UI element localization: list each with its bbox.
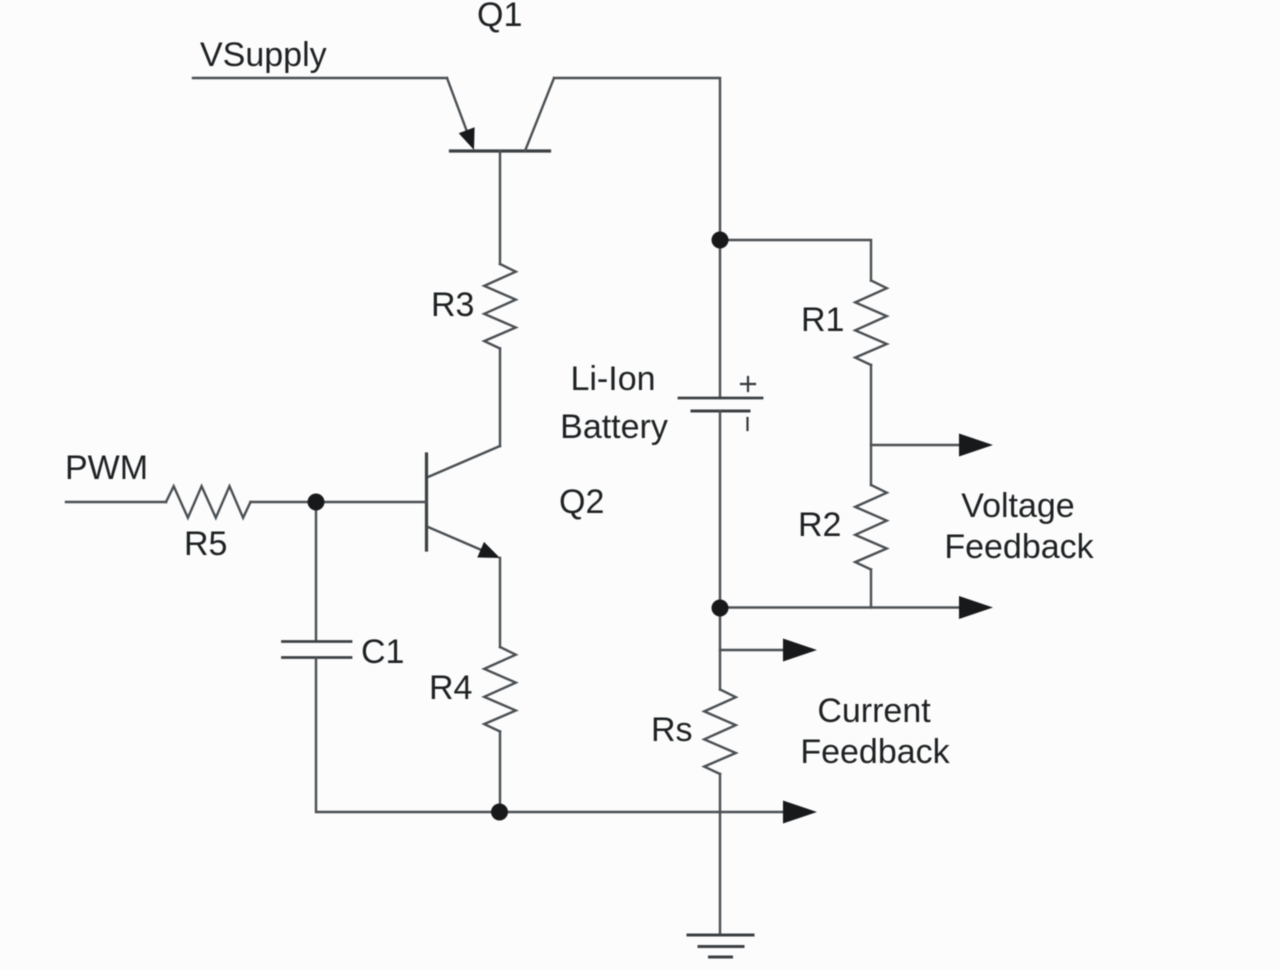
wire Rs to ground <box>719 774 721 935</box>
svg-text:C1: C1 <box>361 633 404 671</box>
transistor Q2 base bar <box>425 454 428 550</box>
wire node to R1 <box>720 240 871 281</box>
node junction dot bottom rail <box>491 804 508 821</box>
arrowhead voltage feedback bottom <box>959 596 993 619</box>
node junction dot PWM/base <box>308 494 325 511</box>
resistor Rs <box>704 690 736 775</box>
svg-text:PWM: PWM <box>65 449 148 487</box>
wire battery bottom rail <box>720 606 959 608</box>
svg-text:Feedback: Feedback <box>944 528 1094 566</box>
transistor Q1 base bar <box>451 149 550 152</box>
wire VSupply rail <box>193 77 447 79</box>
node junction dot battery bottom <box>712 600 729 617</box>
svg-text:Q1: Q1 <box>477 0 522 34</box>
svg-text:R3: R3 <box>431 286 474 324</box>
wire R4 to bottom rail <box>499 732 501 813</box>
svg-text:R4: R4 <box>429 669 472 707</box>
svg-text:Feedback: Feedback <box>800 733 950 771</box>
svg-text:R5: R5 <box>184 525 227 563</box>
node junction dot battery top <box>712 232 729 249</box>
transistor Q1 collector <box>525 78 554 151</box>
battery plus sign <box>741 377 755 391</box>
transistor Q2 collector <box>428 446 500 477</box>
arrowhead current feedback bottom <box>783 801 817 824</box>
svg-text:Voltage: Voltage <box>961 487 1074 525</box>
wire node to C1 <box>315 502 317 641</box>
wire R2 bottom <box>870 570 872 608</box>
wire PWM input <box>66 501 166 503</box>
transistor Q1 emitter <box>447 78 472 145</box>
wire node to Rs <box>719 608 721 690</box>
svg-text:Q2: Q2 <box>559 483 604 521</box>
wire C1 to bottom rail <box>316 658 783 813</box>
ground bar 1 <box>688 934 753 937</box>
svg-text:R1: R1 <box>801 301 844 339</box>
wire current feedback tap <box>720 649 783 651</box>
svg-text:Rs: Rs <box>651 711 693 749</box>
transistor Q2 emitter <box>428 527 494 555</box>
svg-text:VSupply: VSupply <box>200 36 327 74</box>
wire R1 to R2 <box>870 365 872 485</box>
resistor R4 <box>484 647 516 732</box>
svg-text:Li-Ion: Li-Ion <box>570 360 655 398</box>
wire Q1 base to R3 <box>499 151 501 264</box>
ground bar 3 <box>710 956 732 959</box>
resistor R5 <box>166 486 251 518</box>
wire top rail to right <box>554 78 720 240</box>
battery minus tick <box>746 418 748 430</box>
capacitor C1 top plate <box>283 640 352 643</box>
resistor R3 <box>484 264 516 349</box>
battery BT1 positive plate <box>679 397 762 400</box>
arrowhead voltage feedback top <box>959 434 993 457</box>
svg-text:Battery: Battery <box>560 408 668 446</box>
wire R5 to Q2 base <box>251 501 427 503</box>
wire voltage feedback tap <box>871 444 959 446</box>
svg-text:R2: R2 <box>798 506 841 544</box>
svg-text:Current: Current <box>817 692 931 730</box>
wire Q2 emitter to R4 <box>499 558 501 647</box>
wire R3 to Q2 collector <box>499 349 501 447</box>
wire battery top <box>719 240 721 397</box>
ground bar 2 <box>699 945 743 948</box>
resistor R2 <box>855 485 887 570</box>
battery BT1 negative plate <box>692 410 749 413</box>
arrowhead current feedback top <box>783 639 817 662</box>
wire battery bottom <box>719 411 721 608</box>
Q1 emitter arrowhead <box>459 127 475 150</box>
Q2 emitter arrowhead <box>477 542 500 558</box>
resistor R1 <box>855 281 887 366</box>
capacitor C1 bottom plate <box>283 656 352 659</box>
